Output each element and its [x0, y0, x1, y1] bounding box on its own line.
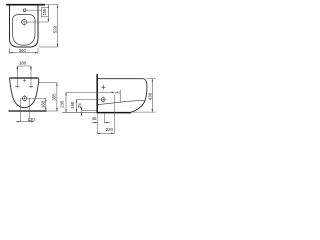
svg-text:45: 45 — [92, 116, 97, 121]
body bottom line (side view) — [97, 112, 131, 114]
svg-text:360: 360 — [19, 48, 27, 53]
dimension 355 — [51, 83, 57, 111]
bottom reference line (side view left) — [62, 111, 97, 113]
leader 160 side — [77, 98, 101, 100]
dimension 180 (fixing holes) — [17, 61, 32, 89]
leader 25 — [82, 109, 98, 111]
svg-text:160: 160 — [41, 100, 46, 108]
dimension 430 — [131, 79, 155, 112]
wall line (side view) — [96, 74, 98, 113]
rim line (front view) — [10, 77, 39, 79]
floor line (front view) — [9, 110, 47, 112]
drain leader to 160 dim — [28, 97, 45, 99]
svg-text:355: 355 — [51, 93, 56, 101]
dimension 220 — [97, 95, 114, 134]
front profile arc (side view) — [131, 79, 147, 113]
svg-text:⌀40: ⌀40 — [115, 90, 121, 94]
fixing cross (side view) — [101, 85, 105, 89]
dimension 25 — [77, 103, 82, 116]
dimension 155 boxed — [42, 5, 50, 22]
dimension 520 — [39, 5, 58, 47]
dimension 120 with extension lines — [16, 98, 35, 122]
dimension 235 — [60, 92, 67, 112]
drain crosshair (front view) — [21, 95, 29, 102]
svg-text:430: 430 — [147, 92, 152, 100]
tap hole leader — [26, 9, 42, 11]
svg-text:180: 180 — [19, 61, 27, 66]
drain leader (top view) — [28, 21, 48, 23]
fixing hole crosses (front view) — [15, 85, 33, 87]
svg-text:520: 520 — [52, 25, 57, 33]
svg-text:155: 155 — [42, 8, 47, 16]
rim line (side view) — [97, 78, 143, 80]
dimension 160 (side view) — [70, 99, 77, 112]
bidet body outline (top view) — [10, 5, 39, 47]
svg-text:160: 160 — [70, 101, 75, 109]
leader 235 — [66, 91, 114, 93]
drain crosshair (top view) — [20, 18, 29, 27]
dimension 160 (front view) — [41, 98, 47, 111]
body outline (front view) — [10, 79, 39, 108]
inner rim oval (top view) — [13, 15, 36, 46]
tap hole cross (front view) — [23, 79, 26, 82]
tap hole (top view) — [23, 9, 26, 12]
svg-text:220: 220 — [106, 127, 114, 132]
dimension 360 — [10, 48, 39, 55]
wall line (top view) — [6, 4, 45, 6]
svg-text:235: 235 — [60, 100, 65, 108]
svg-text:25: 25 — [77, 103, 82, 108]
svg-text:120: 120 — [28, 117, 36, 122]
floor thin extension — [47, 110, 58, 112]
underside curve (side view) — [98, 100, 145, 104]
wall extension line — [45, 4, 58, 6]
under-rim extension for 355 — [39, 82, 58, 84]
inlet circle-cross (side view) — [100, 96, 106, 102]
dimension 45 — [92, 113, 110, 123]
label leader down — [119, 90, 121, 102]
